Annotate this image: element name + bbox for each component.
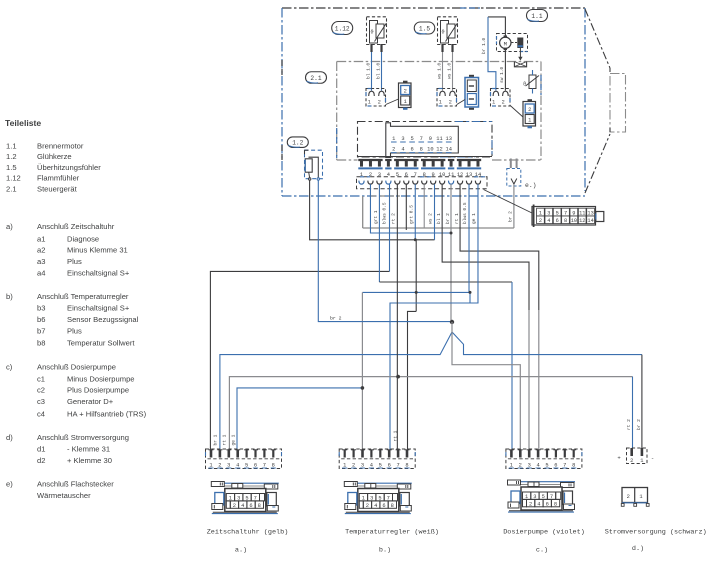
flat connector e drawing 14-pin <box>532 207 596 226</box>
svg-text:2: 2 <box>627 494 630 500</box>
svg-text:2: 2 <box>366 503 369 509</box>
svg-text:1: 1 <box>492 100 495 106</box>
svg-text:1: 1 <box>528 118 531 124</box>
control unit 14-pin header housing <box>358 122 493 158</box>
svg-text:b8: b8 <box>37 339 45 348</box>
connector block of sensor 1.5 <box>465 78 479 108</box>
svg-text:Anschluß Zeitschaltuhr: Anschluß Zeitschaltuhr <box>37 222 115 231</box>
svg-text:d1: d1 <box>37 445 45 454</box>
svg-text:d2: d2 <box>37 456 45 465</box>
svg-text:2: 2 <box>392 146 395 152</box>
flame sensor 1.12 <box>367 17 387 45</box>
svg-text:6: 6 <box>410 146 413 152</box>
svg-text:1: 1 <box>539 210 542 216</box>
svg-text:Anschluß Flachstecker: Anschluß Flachstecker <box>37 479 114 488</box>
glow plug 1.2 <box>305 150 323 179</box>
svg-text:Anschluß Temperaturregler: Anschluß Temperaturregler <box>37 292 129 301</box>
svg-text:ge 1: ge 1 <box>471 213 477 224</box>
svg-text:b7: b7 <box>37 327 45 336</box>
svg-text:2: 2 <box>404 89 407 95</box>
wire a4 to b3 junction <box>237 388 362 450</box>
svg-text:ws 2: ws 2 <box>427 213 433 224</box>
svg-text:1: 1 <box>404 99 407 105</box>
socket X2 for overheat sensor 1.5, pins 1 2 <box>437 89 457 107</box>
svg-text:13: 13 <box>587 210 593 216</box>
svg-text:2: 2 <box>502 100 505 106</box>
svg-text:6: 6 <box>556 218 559 224</box>
svg-text:1.2: 1.2 <box>6 152 17 161</box>
svg-text:rt 1: rt 1 <box>392 430 398 441</box>
svg-text:11: 11 <box>579 210 585 216</box>
svg-text:Anschluß Stromversorgung: Anschluß Stromversorgung <box>37 433 129 442</box>
svg-text:sw 1.0: sw 1.0 <box>499 66 505 83</box>
svg-text:Einschaltsignal S+: Einschaltsignal S+ <box>67 304 130 313</box>
svg-text:14: 14 <box>587 218 593 224</box>
svg-text:c3: c3 <box>37 397 45 406</box>
svg-text:rt 2: rt 2 <box>626 419 632 430</box>
svg-text:8: 8 <box>391 503 394 509</box>
svg-text:5: 5 <box>556 210 559 216</box>
svg-text:+ Klemme 30: + Klemme 30 <box>67 456 112 465</box>
svg-text:1: 1 <box>368 100 371 106</box>
wire splice to c2 <box>452 322 520 450</box>
svg-text:8: 8 <box>420 146 423 152</box>
svg-text:e.): e.) <box>525 182 537 189</box>
harness boundary gray <box>362 196 364 228</box>
svg-text:b.): b.) <box>379 547 391 555</box>
wire a1 diagnose to pin4 <box>210 271 389 449</box>
housing drawing a Zeitschaltuhr <box>212 482 279 484</box>
plus rail a3 - b7 - d2 <box>229 377 632 450</box>
svg-text:Plus Dosierpumpe: Plus Dosierpumpe <box>67 386 129 395</box>
svg-text:4: 4 <box>547 218 550 224</box>
svg-text:HA + Hilfsantrieb (TRS): HA + Hilfsantrieb (TRS) <box>67 410 147 419</box>
pointer line to flat connector drawing e <box>484 190 533 214</box>
svg-text:br 2: br 2 <box>330 315 342 321</box>
svg-text:2: 2 <box>449 100 452 106</box>
housing drawing c Dosierpumpe <box>508 481 575 483</box>
label oval 1.2 <box>287 137 308 148</box>
svg-text:1.2: 1.2 <box>292 140 303 147</box>
svg-text:6: 6 <box>546 501 549 507</box>
label oval 2.1 <box>306 72 327 84</box>
ground arrow from capacitor <box>519 48 521 58</box>
svg-text:9: 9 <box>429 136 432 142</box>
wire pin14 to b6 branch <box>470 184 478 303</box>
connector strip b (Temperaturregler) pins 1-8 <box>339 449 415 469</box>
wire glow plug minus to pin9 (junction with pin7, pin13 riser) <box>310 180 435 240</box>
control unit 2.1 boundary (gray dash-dot) <box>337 61 541 63</box>
wire pin5 to b7 (rt 2) <box>396 184 398 449</box>
svg-text:ws 1.0: ws 1.0 <box>447 62 453 79</box>
label oval 1.12 <box>332 22 353 35</box>
svg-text:c4: c4 <box>37 410 45 419</box>
motor M symbol <box>500 37 511 48</box>
pointer line <box>457 100 465 105</box>
svg-text:4: 4 <box>241 503 244 509</box>
wire pin7 stub to junction <box>414 184 416 240</box>
svg-text:a4: a4 <box>37 269 45 278</box>
svg-text:Sensor Bezugssignal: Sensor Bezugssignal <box>67 315 139 324</box>
connector block 2/1 of burner motor <box>523 102 536 127</box>
glow plug terminals <box>309 178 311 180</box>
svg-text:6: 6 <box>382 503 385 509</box>
svg-text:1.12: 1.12 <box>335 25 350 32</box>
svg-text:Plus: Plus <box>67 257 82 266</box>
svg-text:8: 8 <box>258 503 261 509</box>
svg-text:rt 1: rt 1 <box>454 213 460 224</box>
svg-text:10: 10 <box>427 146 433 152</box>
svg-text:M: M <box>504 40 507 47</box>
svg-text:2: 2 <box>233 503 236 509</box>
svg-text:b6: b6 <box>37 315 45 324</box>
pointer line <box>510 106 523 118</box>
svg-text:1: 1 <box>392 136 395 142</box>
svg-text:1.1: 1.1 <box>6 142 17 151</box>
svg-text:4: 4 <box>537 501 540 507</box>
svg-text:4: 4 <box>374 503 377 509</box>
svg-text:Stromversorgung (schwarz): Stromversorgung (schwarz) <box>605 529 707 537</box>
motor wire minus lead <box>504 49 506 91</box>
socket X3 for burner motor, pins 1 2 <box>491 89 511 107</box>
svg-text:Anschluß Dosierpumpe: Anschluß Dosierpumpe <box>37 363 116 372</box>
splice dot and glow plug plus wire br 2 <box>318 180 452 321</box>
header pin comb <box>358 156 493 158</box>
svg-text:Einschaltsignal S+: Einschaltsignal S+ <box>67 269 130 278</box>
wire pin3 to c1 <box>378 184 380 282</box>
svg-text:c2: c2 <box>37 386 45 395</box>
svg-text:5: 5 <box>410 136 413 142</box>
housing drawing d Stromversorgung <box>622 488 648 503</box>
svg-text:1.5: 1.5 <box>419 25 430 32</box>
svg-text:blws 0.5: blws 0.5 <box>382 202 388 224</box>
svg-text:Überhitzungsfühler: Überhitzungsfühler <box>37 163 101 172</box>
wire pin13 net: to b3, riser to pin7 junction, b8 riser, b6/pin14 branch <box>362 184 469 292</box>
svg-text:br 1.0: br 1.0 <box>481 37 487 54</box>
svg-text:a): a) <box>6 222 13 231</box>
svg-text:Steuergerät: Steuergerät <box>37 184 78 193</box>
svg-text:-: - <box>651 455 654 462</box>
svg-text:2: 2 <box>528 107 531 113</box>
svg-text:2: 2 <box>529 501 532 507</box>
svg-text:c1: c1 <box>37 374 45 383</box>
svg-text:1.1: 1.1 <box>531 13 542 20</box>
connector block 2/1 of sensor 1.12 <box>399 83 412 108</box>
wire pin10 to c3 (bl 1) <box>442 184 529 310</box>
svg-text:br 2: br 2 <box>636 419 642 430</box>
connector strip a (Zeitschaltuhr) pins 1-8 <box>206 449 282 469</box>
svg-text:b3: b3 <box>37 304 45 313</box>
wire pin12 to c4 (rt 1) <box>460 184 539 310</box>
svg-text:13: 13 <box>445 136 451 142</box>
svg-text:2.1: 2.1 <box>6 184 17 193</box>
socket X1 for flame sensor 1.12, pins 1 2 <box>366 89 386 107</box>
svg-text:14: 14 <box>445 146 451 152</box>
svg-text:Brennermotor: Brennermotor <box>37 142 84 151</box>
svg-text:Glühkerze: Glühkerze <box>37 152 72 161</box>
svg-text:rt 1: rt 1 <box>222 434 228 445</box>
svg-text:7: 7 <box>420 136 423 142</box>
svg-text:ϑ: ϑ <box>523 82 526 88</box>
svg-text:b): b) <box>6 292 13 301</box>
svg-text:Minus Dosierpumpe: Minus Dosierpumpe <box>67 374 135 383</box>
svg-text:3: 3 <box>401 136 404 142</box>
svg-text:Minus Klemme 31: Minus Klemme 31 <box>67 246 128 255</box>
svg-text:Dosierpumpe (violet): Dosierpumpe (violet) <box>503 529 585 537</box>
svg-text:bl 1: bl 1 <box>436 213 442 224</box>
svg-text:Wärmetauscher: Wärmetauscher <box>37 491 91 500</box>
label oval 1.5 <box>414 22 435 34</box>
svg-text:6: 6 <box>249 503 252 509</box>
svg-text:d.): d.) <box>632 545 644 553</box>
svg-text:br 1: br 1 <box>212 434 218 445</box>
motor suppressor capacitor <box>512 42 518 44</box>
svg-text:Temperatur Sollwert: Temperatur Sollwert <box>67 339 135 348</box>
svg-text:c): c) <box>6 363 13 372</box>
svg-text:2: 2 <box>539 218 542 224</box>
svg-text:1: 1 <box>639 494 642 500</box>
svg-text:2: 2 <box>630 458 633 464</box>
svg-text:1.5: 1.5 <box>6 163 17 172</box>
mating receptacle row (dashed) <box>357 177 488 189</box>
wire pin8 stub <box>423 184 425 228</box>
svg-text:Plus: Plus <box>67 327 82 336</box>
svg-text:d): d) <box>6 433 13 442</box>
svg-text:Zeitschaltuhr (gelb): Zeitschaltuhr (gelb) <box>207 529 289 537</box>
housing drawing b Temperaturregler <box>345 482 412 484</box>
wire pin11 down to splice dot <box>450 184 452 322</box>
svg-text:Flammfühler: Flammfühler <box>37 174 80 183</box>
housing connection X-box <box>514 62 526 67</box>
burner motor 1.1 dashed box <box>497 34 528 52</box>
svg-text:12: 12 <box>579 218 585 224</box>
svg-text:rt 2: rt 2 <box>390 213 396 224</box>
svg-text:4: 4 <box>401 146 404 152</box>
label oval 1.1 <box>527 10 548 22</box>
svg-text:c.): c.) <box>536 547 548 555</box>
overheat sensor 1.5 <box>438 17 458 45</box>
minus rail a2 - splice - d1 (br 2) <box>220 332 452 450</box>
svg-text:bl 1.0: bl 1.0 <box>366 62 372 79</box>
svg-text:ge 1: ge 1 <box>230 434 236 445</box>
svg-text:a1: a1 <box>37 234 45 243</box>
overheat fuse thermistor <box>529 75 536 89</box>
svg-text:12: 12 <box>436 146 442 152</box>
svg-text:1.12: 1.12 <box>6 174 21 183</box>
svg-text:3: 3 <box>547 210 550 216</box>
pointer line <box>386 99 399 105</box>
svg-text:- Klemme 31: - Klemme 31 <box>67 445 110 454</box>
svg-text:e): e) <box>6 479 13 488</box>
svg-text:10: 10 <box>571 218 577 224</box>
svg-text:Temperaturregler (weiß): Temperaturregler (weiß) <box>345 529 439 537</box>
svg-text:9: 9 <box>572 210 575 216</box>
svg-text:br 2: br 2 <box>445 213 451 224</box>
wire pin6 stub <box>405 184 407 230</box>
heater body outline (dash-dot) <box>282 7 585 9</box>
svg-text:7: 7 <box>564 210 567 216</box>
connector d (Stromversorgung) 2-pin <box>627 448 648 464</box>
svg-text:grt 1: grt 1 <box>373 210 379 224</box>
svg-text:br 2: br 2 <box>508 211 514 222</box>
svg-text:1: 1 <box>439 100 442 106</box>
svg-text:8: 8 <box>554 501 557 507</box>
single pin e with wire br 2 <box>510 159 512 169</box>
svg-text:Teileliste: Teileliste <box>5 118 41 128</box>
svg-text:2.1: 2.1 <box>310 75 321 82</box>
connector strip c (Dosierpumpe) pins 1-8 <box>506 449 582 469</box>
svg-text:ws 1.0: ws 1.0 <box>437 62 443 79</box>
svg-text:a3: a3 <box>37 257 45 266</box>
svg-text:Generator D+: Generator D+ <box>67 397 114 406</box>
svg-text:Diagnose: Diagnose <box>67 234 99 243</box>
svg-text:blws 0.5: blws 0.5 <box>462 202 468 224</box>
svg-text:grt 0.5: grt 0.5 <box>408 205 414 224</box>
svg-text:8: 8 <box>564 218 567 224</box>
svg-text:a.): a.) <box>235 547 247 555</box>
svg-text:1: 1 <box>640 458 643 464</box>
svg-text:a2: a2 <box>37 246 45 255</box>
wire pin2 to junction 451,233 <box>370 184 451 233</box>
svg-text:11: 11 <box>436 136 442 142</box>
motor wire loop plus lead <box>488 17 505 37</box>
heater right end diagonals and flange <box>585 9 610 68</box>
svg-text:bl 1.0: bl 1.0 <box>376 62 382 79</box>
svg-text:2: 2 <box>378 100 381 106</box>
